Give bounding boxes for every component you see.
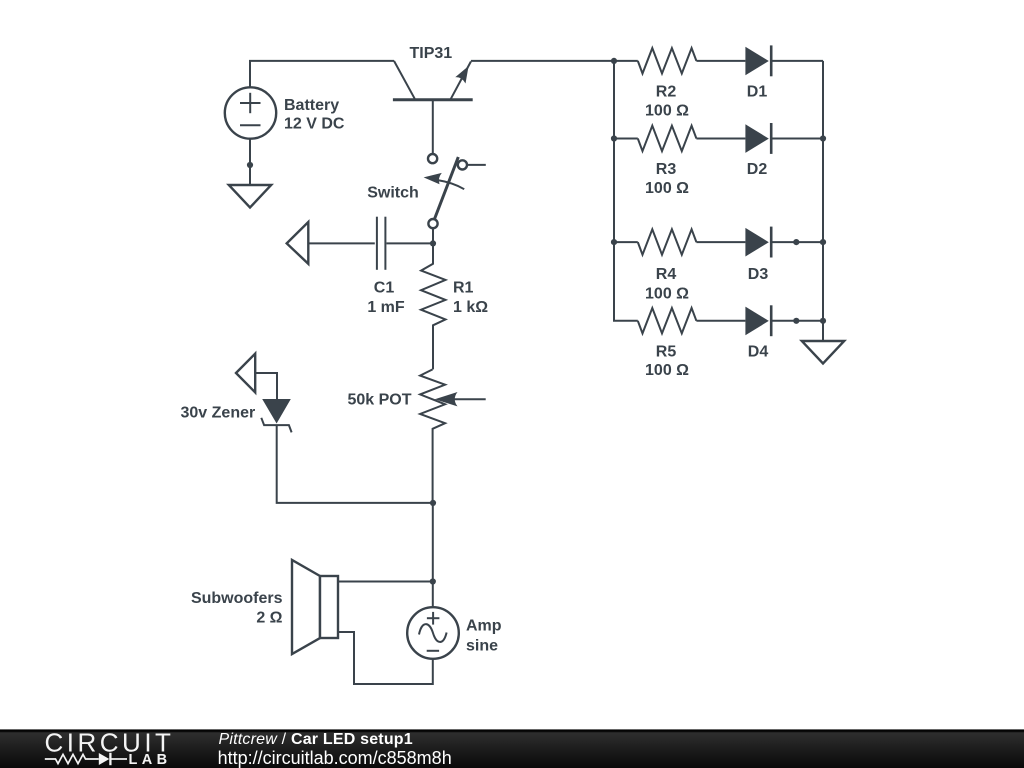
resistor R4 (638, 229, 697, 254)
label Subwoofers 2 Ohm (191, 590, 283, 627)
footer url (218, 748, 452, 768)
svg-text:D2: D2 (747, 161, 768, 178)
svg-text:D4: D4 (748, 344, 769, 361)
capacitor C1 (377, 217, 433, 270)
svg-text:100 Ω: 100 Ω (645, 362, 689, 379)
zener diode D5 30v (261, 399, 291, 432)
svg-text:2 Ω: 2 Ω (256, 610, 282, 627)
wire battery top to collector (250, 61, 394, 88)
logo LAB (129, 752, 172, 768)
logo resistor glyph (45, 754, 99, 763)
svg-text:sine: sine (466, 638, 498, 655)
svg-text:D3: D3 (748, 266, 769, 283)
resistor R1 (421, 243, 446, 369)
svg-text:Pittcrew / Car LED setup1: Pittcrew / Car LED setup1 (219, 731, 413, 748)
svg-text:LAB: LAB (129, 752, 172, 768)
row 3 wires (614, 241, 823, 243)
battery V1 12V source circle (225, 87, 276, 138)
node dot bus top (611, 58, 617, 64)
svg-text:R2: R2 (656, 83, 677, 100)
switch SW1 (424, 154, 486, 228)
node dot zener/main (430, 500, 436, 506)
net flag (capacitor left) (287, 222, 309, 264)
diode D4 (745, 305, 771, 336)
ground symbol (battery) (229, 185, 271, 208)
speaker SP1 subwoofer (292, 560, 338, 654)
resistor R3 (638, 126, 697, 151)
svg-text:http://circuitlab.com/c858m8h: http://circuitlab.com/c858m8h (218, 748, 452, 768)
node dot right row2 (820, 135, 826, 141)
svg-text:R1: R1 (453, 280, 474, 297)
node dot left row2 (611, 135, 617, 141)
node dot row4 mid (793, 318, 799, 324)
wire battery bottom (249, 139, 251, 185)
label R5 100 (645, 344, 689, 380)
label R4 100 (645, 266, 689, 302)
label D4 (748, 344, 769, 361)
ground symbol (LED bus) (802, 341, 844, 364)
label R3 100 (645, 161, 689, 197)
label D1 (747, 83, 768, 100)
potentiometer 50k POT (420, 369, 486, 503)
svg-text:D1: D1 (747, 83, 768, 100)
wire flag to zener (255, 373, 277, 400)
svg-text:R3: R3 (656, 161, 677, 178)
svg-text:30v Zener: 30v Zener (181, 405, 256, 422)
label 50k POT (347, 391, 411, 408)
wire flag to capacitor (308, 242, 375, 244)
svg-text:100 Ω: 100 Ω (645, 285, 689, 302)
svg-text:1 kΩ: 1 kΩ (453, 299, 488, 316)
label Switch (367, 184, 419, 201)
svg-text:C1: C1 (374, 280, 395, 297)
label TIP31 (410, 45, 453, 62)
wire switch to cap node (432, 228, 434, 243)
diode D2 (745, 123, 771, 154)
wire speaker top (338, 581, 433, 583)
label R1 1 kOhm (453, 280, 488, 317)
footer title (219, 731, 413, 748)
label Battery 12 V DC (284, 97, 345, 133)
label C1 1 mF (367, 280, 405, 317)
svg-text:1 mF: 1 mF (367, 299, 405, 316)
svg-text:Amp: Amp (466, 618, 502, 635)
resistor R5 (638, 308, 697, 333)
left LED bus (614, 61, 638, 321)
label D2 (747, 161, 768, 178)
wire main down to amp (432, 503, 434, 607)
diode D3 (745, 227, 771, 258)
svg-text:100 Ω: 100 Ω (645, 180, 689, 197)
node dot C1/switch (430, 240, 436, 246)
CircuitLab logo CIRCUIT (45, 727, 175, 757)
node dot row3 mid (793, 239, 799, 245)
node dot right row3 (820, 239, 826, 245)
row 4 wires (696, 320, 823, 322)
label Amp sine (466, 618, 502, 655)
svg-text:TIP31: TIP31 (410, 45, 453, 62)
wire zener bottom to main node (277, 425, 433, 503)
source V2 Amp sine (407, 607, 459, 659)
node dot right row4 (820, 318, 826, 324)
wire emitter to LED bus (471, 60, 614, 62)
label 30v Zener (181, 405, 256, 422)
svg-text:Subwoofers: Subwoofers (191, 590, 283, 607)
logo diode glyph (99, 753, 127, 765)
transistor Q1 TIP31 (393, 61, 473, 154)
diode D1 (745, 45, 771, 76)
svg-text:Switch: Switch (367, 184, 419, 201)
wire speaker bottom loop (338, 632, 433, 684)
label R2 100 (645, 83, 689, 119)
node dot left row3 (611, 239, 617, 245)
svg-text:R4: R4 (656, 266, 677, 283)
label D3 (748, 266, 769, 283)
row 1 wires (614, 60, 823, 62)
node dot speaker tap (430, 578, 436, 584)
net flag (zener top) (236, 354, 255, 393)
resistor R2 (638, 48, 697, 73)
row 2 wires (614, 138, 823, 140)
svg-text:R5: R5 (656, 344, 677, 361)
right LED bus (822, 61, 824, 341)
svg-text:100 Ω: 100 Ω (645, 102, 689, 119)
svg-text:12 V DC: 12 V DC (284, 116, 345, 133)
svg-text:50k POT: 50k POT (347, 391, 411, 408)
node dot battery-ground (247, 162, 253, 168)
svg-text:Battery: Battery (284, 97, 339, 114)
